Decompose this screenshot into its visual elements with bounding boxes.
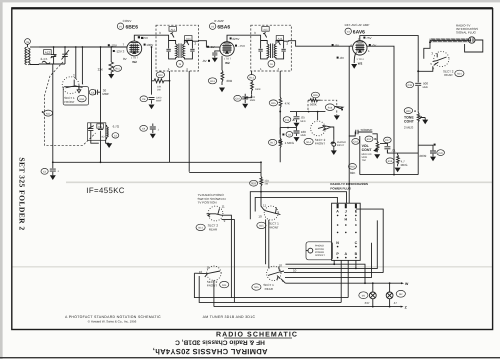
switch arm arrowhead bbox=[318, 112, 323, 129]
svg-text:W2: W2 bbox=[132, 60, 137, 64]
terminal W bbox=[401, 282, 404, 284]
trimmer label box A14 bbox=[185, 36, 192, 41]
staircase row y268.4 bbox=[288, 220, 377, 268]
ref C8 bbox=[140, 96, 148, 102]
wire R24 down to switch bbox=[261, 191, 265, 210]
svg-text:11: 11 bbox=[222, 205, 225, 209]
arm bbox=[194, 271, 220, 277]
svg-text:N15: N15 bbox=[254, 286, 259, 289]
tone cap .0039 bbox=[418, 145, 436, 156]
ground C2 bbox=[50, 175, 56, 180]
svg-text:10: 10 bbox=[258, 215, 262, 219]
ref C3 oval bbox=[89, 89, 96, 95]
switch arm bbox=[433, 53, 447, 65]
cathode ground bbox=[354, 52, 356, 63]
svg-text:J: J bbox=[345, 210, 347, 214]
IF1 transformer dashed enclosure bbox=[156, 25, 199, 71]
loop antenna coil L1 bbox=[25, 47, 27, 64]
plug pin bars top row bbox=[337, 204, 357, 208]
switch label box SECT 1 FRONT bbox=[63, 87, 88, 105]
svg-text:-8V: -8V bbox=[334, 43, 339, 47]
pin E wire right bbox=[356, 209, 383, 273]
svg-text:SET 325 FOLDER 2: SET 325 FOLDER 2 bbox=[18, 157, 27, 230]
rotary switch SECT2 FRONT wafer bbox=[311, 121, 326, 136]
svg-text:POWER PLUG: POWER PLUG bbox=[330, 186, 351, 190]
tuning gang capacitor C1B bbox=[62, 47, 70, 64]
ref 13 oval bbox=[112, 133, 119, 138]
resistor 4.7MEG bbox=[397, 153, 400, 166]
svg-text:A11: A11 bbox=[98, 125, 103, 128]
wire rail x98.5 long bbox=[100, 47, 102, 124]
tube V2 internals bbox=[222, 44, 232, 53]
bottom bus 2 bbox=[199, 276, 341, 302]
wire arm to plate rail bbox=[418, 66, 433, 71]
wire cable shield down to switch bbox=[424, 42, 430, 58]
voltage -12V pin3 bbox=[113, 50, 115, 52]
wire IF2 secondary out to 6AV6 grid bbox=[284, 41, 353, 47]
svg-text:REAR: REAR bbox=[209, 227, 218, 231]
svg-text:N14: N14 bbox=[80, 98, 85, 101]
ground below R11 bbox=[108, 74, 114, 79]
svg-text:1 MEG: 1 MEG bbox=[285, 141, 295, 145]
ref C19 bbox=[406, 82, 414, 88]
loop box inner to plug pin A bbox=[255, 197, 337, 211]
svg-text:500: 500 bbox=[423, 81, 428, 85]
ref R17B bbox=[365, 136, 373, 142]
resistor 560K horizontal bbox=[308, 99, 321, 102]
svg-text:C20: C20 bbox=[438, 152, 443, 155]
staircase row y277.4 bbox=[285, 243, 372, 278]
grid voltage -1V bbox=[207, 46, 209, 48]
svg-text:RADIO SCHEMATIC: RADIO SCHEMATIC bbox=[216, 332, 298, 339]
svg-text:IF AMP: IF AMP bbox=[214, 19, 224, 23]
wire osc bottom to ground bbox=[91, 140, 109, 143]
dashed link to switch bbox=[308, 100, 337, 115]
svg-text:.05: .05 bbox=[301, 115, 306, 119]
svg-text:47K: 47K bbox=[285, 101, 290, 105]
pilot lamp M2 bbox=[386, 292, 393, 299]
page top gray edge bbox=[0, 0, 500, 2]
svg-text:H: H bbox=[344, 218, 347, 222]
svg-text:B: B bbox=[355, 252, 358, 256]
svg-text:MMF: MMF bbox=[102, 92, 109, 96]
svg-text:C10: C10 bbox=[235, 98, 240, 101]
wire pot bottom to AVC bus corner bbox=[279, 161, 281, 163]
ref + label SECT 1 FRONT bbox=[257, 222, 266, 228]
svg-text:10: 10 bbox=[279, 264, 283, 268]
trimmer capacitor C1A bbox=[51, 47, 57, 64]
svg-text:-0V: -0V bbox=[372, 43, 377, 47]
svg-text:82K: 82K bbox=[350, 171, 355, 175]
switch arm bbox=[66, 80, 83, 93]
IF2 transformer dashed enclosure bbox=[251, 25, 291, 71]
ref N12 oval bbox=[44, 110, 53, 116]
wiper arrow right bbox=[335, 106, 343, 108]
coupling cap C17 .01 bbox=[384, 137, 392, 143]
svg-text:-10V: -10V bbox=[111, 43, 117, 47]
capacitor 2200MMF bbox=[149, 97, 155, 103]
antenna ref circle 7B bbox=[25, 39, 31, 45]
trimmer label box A12 bbox=[44, 50, 52, 55]
svg-text:R14: R14 bbox=[249, 77, 254, 80]
ref R11 bbox=[114, 65, 122, 71]
svg-text:N12: N12 bbox=[46, 112, 51, 115]
svg-text:R18: R18 bbox=[350, 166, 355, 169]
svg-text:560MMF: 560MMF bbox=[361, 128, 373, 132]
trimmer label box A15 bbox=[262, 27, 269, 32]
svg-text:75V: 75V bbox=[366, 36, 371, 40]
tube V3 internals bbox=[355, 43, 364, 52]
tone pot element bbox=[417, 111, 420, 124]
wire antenna bottom lead bbox=[30, 63, 39, 66]
ground R19 bbox=[395, 168, 401, 173]
wire 160K down to C10 junction bbox=[242, 95, 251, 98]
svg-text:-12V 3: -12V 3 bbox=[116, 49, 125, 53]
wire SECT1R arm bottom to W bus bbox=[281, 279, 285, 283]
svg-text:CONT: CONT bbox=[362, 148, 373, 152]
ref C2 oval bbox=[41, 168, 48, 174]
capacitor 30MMF bbox=[95, 90, 100, 95]
svg-text:MMF: MMF bbox=[423, 86, 429, 89]
plug return loop bbox=[465, 40, 483, 52]
svg-text:TAP: TAP bbox=[362, 159, 367, 162]
svg-text:-.75V: -.75V bbox=[238, 44, 245, 48]
svg-text:.0039: .0039 bbox=[419, 154, 427, 158]
IF1 left tuning cap bbox=[166, 41, 175, 59]
ref R18 82K bbox=[348, 164, 356, 170]
ref R16B big oval bbox=[325, 104, 334, 111]
audio bottom bus y174.6 bbox=[360, 174, 418, 176]
svg-text:N: N bbox=[336, 241, 339, 245]
voltage square right bbox=[434, 144, 436, 146]
svg-text:C17: C17 bbox=[385, 139, 390, 142]
grid resistor R11 22K bbox=[110, 47, 112, 62]
svg-text:C16: C16 bbox=[353, 141, 358, 144]
voltage 75V pin7 bbox=[363, 37, 365, 39]
wire IF1 secondary out to 6BA6 bbox=[192, 41, 219, 47]
cathode resistor R13 68 ohm bbox=[221, 56, 223, 70]
svg-text:R15: R15 bbox=[271, 102, 276, 105]
scan fold line upper bbox=[66, 181, 492, 183]
ref R20 A bbox=[404, 108, 412, 114]
page bottom edge line bbox=[0, 357, 500, 358]
svg-text:-8V: -8V bbox=[202, 59, 207, 63]
cap 560MMF bbox=[349, 130, 373, 136]
svg-text:CONV: CONV bbox=[123, 19, 132, 23]
ref N14 bbox=[455, 70, 464, 76]
IF2 trimmer arrows bbox=[263, 33, 280, 46]
cathode cap to ground bbox=[212, 51, 220, 58]
voltage 100V bbox=[144, 44, 146, 46]
svg-text:#47: #47 bbox=[365, 301, 370, 305]
osc padder cap bbox=[98, 124, 103, 141]
wire C17 top tap bbox=[380, 143, 418, 153]
R24 vertical from AVC buses bbox=[260, 162, 262, 176]
label SECT 1 REAR + ref bbox=[252, 284, 261, 290]
plate lead up bbox=[227, 35, 261, 41]
ref C14A bbox=[283, 117, 291, 123]
tube V3 6AV6 envelope bbox=[353, 41, 367, 55]
svg-text:A PHOTOFACT STANDARD NOTATI: A PHOTOFACT STANDARD NOTATION SCHEMATIC bbox=[65, 315, 161, 319]
ref C16 bbox=[352, 139, 360, 145]
svg-text:10: 10 bbox=[199, 270, 203, 274]
dial lamp bus top bbox=[286, 282, 402, 284]
wire sect2f pin down to Z bus bbox=[213, 280, 215, 306]
svg-text:FRONT: FRONT bbox=[268, 225, 278, 229]
svg-text:IF=455KC: IF=455KC bbox=[86, 186, 125, 195]
svg-text:-1V: -1V bbox=[210, 45, 215, 49]
screen resistor R10 10K bbox=[156, 72, 164, 78]
ref V1 circle bbox=[117, 23, 123, 29]
svg-text:560K: 560K bbox=[310, 102, 317, 106]
rotary switch SECT2 REAR top wafer bbox=[434, 51, 449, 66]
rotary switch SECT1 FRONT wafer bbox=[62, 77, 79, 94]
svg-text:MEG: MEG bbox=[401, 163, 409, 167]
voltage 250V bbox=[230, 37, 232, 39]
ground C8 bbox=[149, 105, 155, 110]
voltage -0V pin1 bbox=[369, 44, 371, 46]
IF2 secondary coil bbox=[274, 44, 276, 58]
wire osc rail to AVC bus bbox=[100, 140, 102, 162]
node dot left of N12 bbox=[42, 111, 44, 113]
svg-text:10: 10 bbox=[293, 269, 297, 273]
tube V1 6BE6 envelope bbox=[127, 41, 142, 56]
svg-text:R19: R19 bbox=[388, 160, 393, 163]
svg-text:6AV6: 6AV6 bbox=[353, 30, 365, 36]
voltage -10V pin7 bbox=[108, 44, 110, 46]
svg-text:2-4.5: 2-4.5 bbox=[41, 57, 48, 61]
svg-text:A: A bbox=[336, 210, 339, 214]
svg-text:DET-AVC-AF AMP: DET-AVC-AF AMP bbox=[345, 23, 370, 27]
voltage -8V grid left bbox=[332, 44, 334, 46]
terminal Z bbox=[401, 306, 404, 308]
oscillator coil L2 bbox=[106, 125, 109, 138]
wire x394 grid return down to bottom bus bbox=[393, 174, 395, 176]
resistor 15ohm 1W bbox=[260, 176, 263, 191]
ref 15 circle bbox=[176, 60, 183, 67]
svg-text:N15: N15 bbox=[259, 225, 264, 228]
ref 18 circle bbox=[286, 132, 293, 138]
svg-text:REAR: REAR bbox=[265, 287, 274, 291]
wire tuning lower return y63.8 bbox=[39, 63, 65, 65]
svg-text:A: A bbox=[344, 252, 347, 256]
svg-text:R17: R17 bbox=[270, 142, 275, 145]
ground C10 bbox=[242, 104, 248, 109]
ref 16 circle bbox=[268, 60, 275, 67]
arm bbox=[268, 267, 284, 281]
svg-text:22K: 22K bbox=[98, 68, 103, 72]
voltage -8V below bbox=[337, 57, 339, 59]
gang dashed link bbox=[44, 62, 95, 145]
svg-text:-8V: -8V bbox=[339, 56, 344, 60]
title underline bbox=[224, 337, 292, 339]
volume pot R17 1MEG bbox=[268, 139, 276, 145]
label box A11 bbox=[97, 124, 104, 128]
voltage 225V right of IF2 wire bbox=[235, 45, 237, 47]
screen bypass rail bbox=[151, 47, 153, 95]
svg-text:N14: N14 bbox=[457, 73, 462, 76]
svg-text:6BA6: 6BA6 bbox=[217, 25, 230, 31]
svg-text:R11: R11 bbox=[115, 68, 120, 71]
wire plate rail down through C19 bbox=[415, 71, 421, 110]
svg-text:R24: R24 bbox=[251, 182, 256, 185]
svg-text:C: C bbox=[355, 241, 358, 245]
power plug rectangle bbox=[332, 203, 361, 260]
phono motor socket box bbox=[306, 242, 333, 260]
svg-text:.4Ω: .4Ω bbox=[101, 135, 105, 138]
ground under arrow bbox=[334, 115, 340, 120]
svg-text:MMF: MMF bbox=[250, 99, 256, 102]
svg-text:160K: 160K bbox=[255, 88, 261, 91]
oscillator enclosure bbox=[88, 123, 106, 141]
svg-text:R13: R13 bbox=[210, 80, 215, 83]
svg-text:2 MEG: 2 MEG bbox=[404, 125, 414, 129]
svg-text:A13: A13 bbox=[171, 28, 176, 31]
svg-text:100V: 100V bbox=[146, 43, 153, 47]
wire pair from arm down to bottom loops bbox=[222, 215, 235, 302]
node at cable left bbox=[429, 41, 431, 43]
osc trimmer A11 cap bbox=[88, 123, 94, 140]
svg-text:TV POSITION: TV POSITION bbox=[198, 201, 217, 205]
svg-text:MMF: MMF bbox=[301, 134, 307, 137]
wire rail x82.4 down to sw bbox=[81, 47, 83, 84]
wire bus y111.6 bbox=[290, 111, 325, 113]
svg-text:MFD: MFD bbox=[300, 120, 305, 123]
dial lamp bus bottom bbox=[214, 306, 401, 308]
svg-text:CONT: CONT bbox=[404, 120, 415, 124]
voltage 225V left bbox=[141, 37, 143, 39]
IF2 left tuning cap bbox=[258, 41, 267, 59]
svg-text:R10: R10 bbox=[158, 74, 163, 77]
svg-text:FRONT: FRONT bbox=[315, 142, 325, 146]
svg-text:INPUT: INPUT bbox=[337, 144, 345, 147]
ref N14 bbox=[304, 138, 313, 144]
svg-text:N14: N14 bbox=[198, 227, 203, 230]
scan fold line lower bbox=[12, 266, 492, 268]
svg-text:AM TUNER 3D1B AND 3D1C: AM TUNER 3D1B AND 3D1C bbox=[203, 315, 256, 319]
IF2 primary coil bbox=[267, 44, 269, 58]
tube V2 6BA6 envelope bbox=[220, 42, 234, 56]
junction dots on staircase bbox=[333, 263, 335, 265]
voltage square at 283 y134 bbox=[282, 134, 284, 136]
ref N14 bbox=[196, 224, 205, 230]
wire antenna coil stub bbox=[27, 44, 29, 47]
wire tone bottom continue down bbox=[417, 124, 419, 175]
ground R13 bbox=[219, 88, 225, 93]
IF2 core lines bbox=[271, 44, 273, 59]
wire det down to C14A junction bbox=[279, 110, 281, 119]
svg-text:7B: 7B bbox=[26, 41, 29, 44]
wire arm right to phono jack column bbox=[331, 127, 334, 139]
svg-text:REAR: REAR bbox=[444, 73, 453, 77]
wire grid bus y47 bbox=[39, 46, 127, 48]
pilot lamp M1 bbox=[359, 292, 368, 299]
wire IF2 pin4 rail down (det diode line) bbox=[279, 71, 281, 97]
svg-text:A16: A16 bbox=[278, 37, 283, 40]
tone wiper to ground bbox=[419, 117, 425, 119]
AVC bypass cap C2 bbox=[50, 162, 56, 175]
svg-text:SOCKET: SOCKET bbox=[315, 254, 325, 257]
svg-text:A14: A14 bbox=[186, 37, 191, 40]
svg-text:© Howard W. Sams & Co., Inc. 1: © Howard W. Sams & Co., Inc. 1956 bbox=[88, 320, 137, 324]
rotary switch SECT1 REAR wafer bbox=[267, 266, 281, 280]
IF1 trimmer arrows bbox=[170, 33, 188, 46]
loop box outer to plug pin J bbox=[250, 192, 346, 220]
svg-text:N14: N14 bbox=[306, 141, 311, 144]
svg-text:8V: 8V bbox=[123, 57, 127, 61]
svg-text:RADIO-TV INTERCHASSIS: RADIO-TV INTERCHASSIS bbox=[330, 182, 368, 186]
page left gray edge bbox=[0, 0, 3, 359]
wire AVC loop left vertical x349 bbox=[349, 46, 352, 48]
svg-text:6BE6: 6BE6 bbox=[126, 25, 139, 31]
svg-text:C14: C14 bbox=[285, 119, 290, 122]
loop wire SECT2F left down then bottom bus 1 bbox=[194, 273, 348, 297]
small loop symbol bbox=[42, 61, 50, 64]
node bus junctions bbox=[53, 46, 55, 48]
svg-text:R16: R16 bbox=[313, 94, 318, 97]
det load R15 47K bbox=[269, 100, 277, 106]
svg-text:R20: R20 bbox=[406, 110, 411, 113]
plug bottom columns to loops bbox=[341, 260, 348, 302]
IF2 right tuning cap bbox=[276, 41, 286, 59]
socket symbol bbox=[308, 248, 313, 253]
IF1 core lines bbox=[179, 44, 181, 59]
ref N14 in box bbox=[77, 95, 86, 102]
svg-text:N14: N14 bbox=[222, 284, 227, 287]
IF1 primary coil bbox=[176, 44, 178, 58]
shielded cable to plug bbox=[430, 38, 469, 42]
plug pins letters bbox=[336, 210, 358, 256]
ref R16 oval top bbox=[311, 92, 319, 98]
wire down to C18 row bbox=[279, 120, 281, 135]
ref V3 circle bbox=[345, 28, 351, 34]
svg-text:A12: A12 bbox=[45, 50, 51, 54]
rotary switch SECT2 FRONT bottom wafer bbox=[207, 266, 221, 280]
wire x418 tone bus end bbox=[417, 174, 419, 176]
tube V1 internals bbox=[129, 44, 139, 54]
plug connector circle bbox=[469, 37, 475, 43]
svg-text:HF & Radio Chassis 3D1B, C: HF & Radio Chassis 3D1B, C bbox=[175, 338, 265, 345]
ground osc bbox=[106, 143, 112, 148]
frame top extra thickness bbox=[11, 7, 493, 9]
wire grid return: pin1 right then down bbox=[367, 46, 394, 174]
svg-text:1 TO 4: 1 TO 4 bbox=[356, 58, 364, 61]
svg-text:FRONT: FRONT bbox=[64, 100, 74, 104]
cap 180MMF bbox=[280, 128, 299, 136]
volume pot element bbox=[372, 134, 379, 153]
voltage -8V below bbox=[208, 60, 210, 62]
svg-text:C19: C19 bbox=[408, 84, 413, 87]
cap .05 to ground bbox=[294, 112, 300, 123]
ref R19 bbox=[386, 158, 394, 164]
svg-text:6.7Ω: 6.7Ω bbox=[113, 125, 120, 129]
trimmer label box A16 bbox=[276, 36, 283, 41]
ref C9 cap at x152 y128 bbox=[140, 125, 148, 131]
trimmer label box A13 bbox=[169, 27, 176, 32]
wire pair below SECT1F down to staircase bbox=[266, 219, 269, 268]
svg-text:SIGNAL PLUG: SIGNAL PLUG bbox=[456, 31, 477, 35]
AVC resistor 160K on rail x251.6 bbox=[251, 71, 253, 75]
svg-text:11: 11 bbox=[207, 266, 210, 270]
wire rail x75.8 down to sw bbox=[75, 47, 77, 79]
svg-text:FRONT: FRONT bbox=[207, 284, 217, 288]
ref V2 circle bbox=[209, 23, 215, 29]
svg-text:.01: .01 bbox=[391, 148, 396, 152]
svg-text:A15: A15 bbox=[263, 28, 268, 31]
svg-text:R17: R17 bbox=[367, 138, 372, 141]
svg-text:MMF: MMF bbox=[156, 99, 162, 102]
rotary switch SECT1 FRONT mid wafer bbox=[264, 206, 278, 220]
